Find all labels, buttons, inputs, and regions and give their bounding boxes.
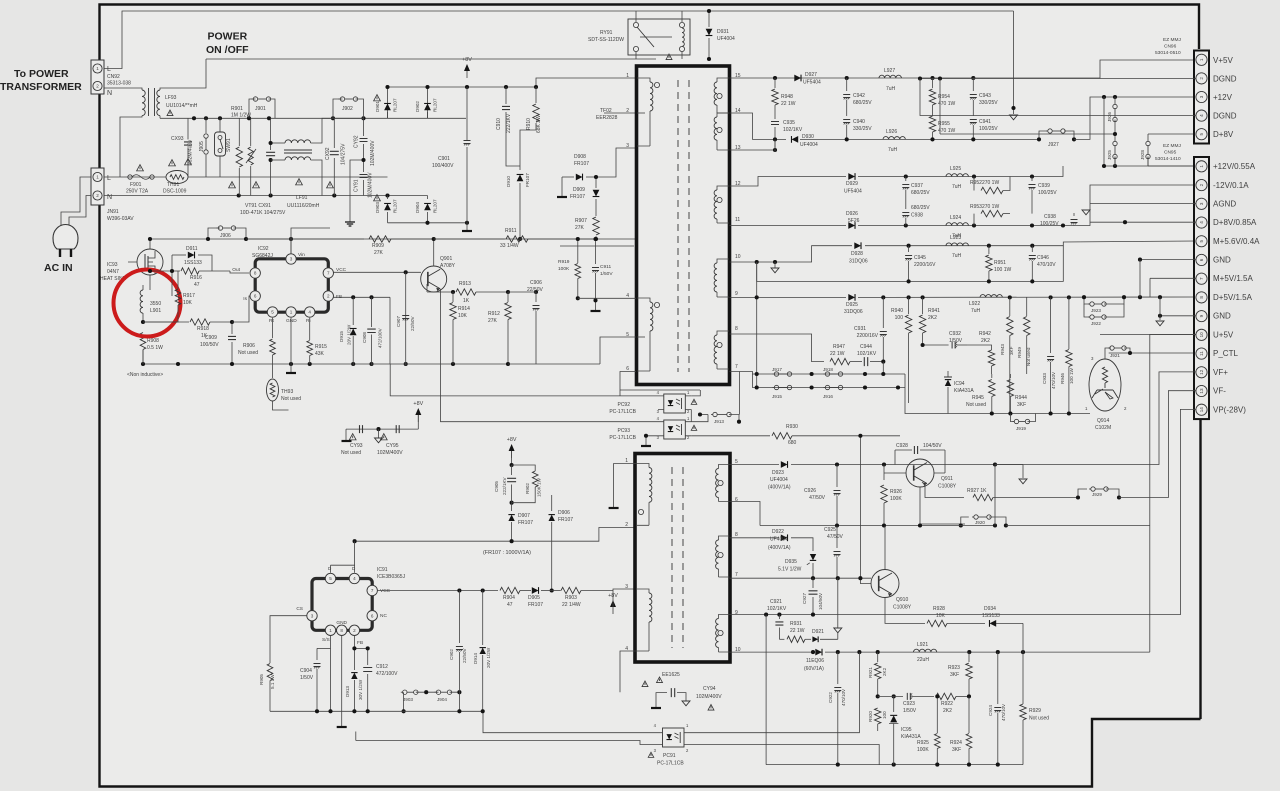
svg-text:ON /OFF: ON /OFF xyxy=(206,44,249,56)
EE1625 aux winding xyxy=(636,589,652,651)
label C901 xyxy=(432,156,454,169)
svg-text:4: 4 xyxy=(308,310,311,315)
junction dot CY xyxy=(361,158,365,162)
svg-text:RY91: RY91 xyxy=(600,30,613,36)
svg-text:1: 1 xyxy=(290,310,293,315)
label CY91 xyxy=(354,172,374,198)
thermistor TH93 xyxy=(267,364,289,410)
wire Q901 collector xyxy=(434,256,440,273)
ground D908 xyxy=(557,177,567,197)
svg-text:100: 100 xyxy=(895,315,904,321)
junction dot feedback xyxy=(858,434,862,438)
svg-text:D927: D927 xyxy=(805,72,817,78)
junction dots row10 rail xyxy=(907,244,1035,248)
wire gnd net mid xyxy=(864,374,866,388)
svg-text:12: 12 xyxy=(1199,369,1204,375)
junction dot pin9 xyxy=(1158,314,1162,318)
wire rail continues xyxy=(508,337,636,364)
label R907 xyxy=(575,218,587,231)
svg-text:R927 1K: R927 1K xyxy=(967,488,987,494)
svg-text:470/10V: 470/10V xyxy=(1051,371,1056,389)
wire jumper row segs xyxy=(404,692,460,711)
svg-text:EZ MMJ: EZ MMJ xyxy=(1163,37,1181,43)
label R926 xyxy=(890,489,902,502)
svg-text:D934: D934 xyxy=(984,606,996,612)
label L924 xyxy=(950,215,962,239)
label R928 xyxy=(933,606,946,619)
resistor R922 xyxy=(936,693,969,699)
label POWER ON/OFF xyxy=(206,31,249,57)
wire Q901 base xyxy=(427,284,453,292)
svg-text:U+5V: U+5V xyxy=(1213,331,1234,340)
wire feedback drop xyxy=(860,436,871,584)
wire VCC rail xyxy=(334,271,422,273)
label C902 xyxy=(449,648,467,663)
svg-text:R913: R913 xyxy=(459,281,471,287)
power arrow +8V pc92 xyxy=(413,401,423,422)
svg-text:680/25V: 680/25V xyxy=(911,205,930,211)
svg-text:3KF: 3KF xyxy=(952,747,961,753)
wire Vin up right xyxy=(290,228,292,239)
svg-text:C945: C945 xyxy=(914,255,926,261)
TF92 primary winding top xyxy=(637,78,660,146)
junction dots R925 xyxy=(935,694,939,698)
svg-text:250V T2A: 250V T2A xyxy=(126,189,149,195)
wire row6 xyxy=(730,502,761,526)
svg-text:102/1KV: 102/1KV xyxy=(767,606,787,612)
svg-text:J906: J906 xyxy=(220,233,231,239)
svg-text:Q911: Q911 xyxy=(941,476,953,482)
label TH93 xyxy=(281,389,301,402)
label TF92 xyxy=(596,108,618,121)
switch SW91 xyxy=(215,118,226,177)
ground arrow CY94 xyxy=(682,701,690,706)
svg-text:C909: C909 xyxy=(205,335,217,341)
capacitor C945 xyxy=(905,246,912,282)
svg-text:C926: C926 xyxy=(804,488,816,494)
wire row12 to L925 xyxy=(858,166,1063,177)
diode D909 xyxy=(593,177,600,212)
junction dots mains bus xyxy=(192,116,366,120)
junction dots row7 ee xyxy=(811,576,863,580)
svg-text:D906: D906 xyxy=(558,510,570,516)
wire row9 xyxy=(730,296,847,298)
resistor R903 xyxy=(552,587,613,593)
wire primary rail 2 xyxy=(560,245,634,247)
svg-text:9: 9 xyxy=(1199,314,1204,317)
svg-text:(60V/1A): (60V/1A) xyxy=(804,666,824,672)
svg-text:J904: J904 xyxy=(437,697,447,702)
svg-text:R903: R903 xyxy=(565,595,577,601)
svg-text:Q910: Q910 xyxy=(896,597,908,603)
resistor R913 xyxy=(456,289,508,295)
svg-text:D914: D914 xyxy=(473,653,478,664)
svg-text:R911: R911 xyxy=(505,228,517,234)
label C931 xyxy=(854,326,879,339)
svg-text:V+5V: V+5V xyxy=(1213,56,1233,65)
svg-text:100K: 100K xyxy=(917,747,929,753)
wire L rail xyxy=(104,176,388,178)
wire FB drop to PC92 xyxy=(389,297,391,364)
wire relay bottom to power rail xyxy=(635,52,637,59)
svg-text:R917: R917 xyxy=(183,293,195,299)
label C923 xyxy=(903,701,917,714)
wire pin9 drop xyxy=(1159,297,1161,316)
resistor R926 xyxy=(881,485,887,526)
svg-text:1/50V: 1/50V xyxy=(300,675,314,681)
wire C906 node xyxy=(508,291,536,293)
diode D905 xyxy=(520,587,552,594)
wire TF92 pin4 xyxy=(578,297,636,299)
svg-text:FR107: FR107 xyxy=(570,194,585,200)
capacitor C944 xyxy=(850,357,883,366)
svg-text:1K: 1K xyxy=(463,298,470,304)
svg-text:IC94: IC94 xyxy=(954,381,965,387)
wire R908 to rail xyxy=(143,350,178,365)
svg-text:100/25V: 100/25V xyxy=(1038,190,1057,196)
svg-text:7uH: 7uH xyxy=(971,308,981,314)
label R908 xyxy=(147,338,163,351)
junction dots J927 xyxy=(1037,137,1076,141)
svg-text:NC: NC xyxy=(380,613,387,619)
svg-text:104/50V: 104/50V xyxy=(818,592,823,610)
svg-text:222/1KV: 222/1KV xyxy=(502,476,507,495)
wire drain net xyxy=(355,528,636,542)
svg-text:Is: Is xyxy=(243,296,247,302)
svg-text:R948: R948 xyxy=(781,94,793,100)
svg-text:L927: L927 xyxy=(884,68,895,74)
wire R908 bottom rail xyxy=(143,363,372,365)
wire DGND pin2 xyxy=(861,60,863,78)
label C932 xyxy=(949,331,963,344)
wire CY junction to ground xyxy=(350,160,364,222)
fuse F901 xyxy=(128,165,154,180)
AC plug xyxy=(53,225,78,258)
wire CN95 pin1 feed xyxy=(1104,122,1196,166)
svg-text:7uH: 7uH xyxy=(952,184,962,190)
wire C901 column xyxy=(466,78,468,87)
label R941 xyxy=(928,308,940,321)
wire row8 xyxy=(730,334,825,362)
TF92 secondary winding 4 xyxy=(714,259,729,297)
svg-text:J920: J920 xyxy=(975,520,985,525)
wire R914 bottom xyxy=(453,330,536,364)
svg-text:D909: D909 xyxy=(573,187,585,193)
junction dot top drop xyxy=(1011,106,1015,110)
wire CN92 N stub xyxy=(104,86,110,88)
svg-text:P_CTL: P_CTL xyxy=(1213,349,1238,358)
inductor L927 xyxy=(879,75,901,78)
diode D908 xyxy=(562,174,596,181)
svg-text:AGND: AGND xyxy=(1213,200,1236,209)
svg-text:D905: D905 xyxy=(528,595,540,601)
wire Q901 base row xyxy=(413,284,453,292)
wire drain to IC91 xyxy=(354,541,356,578)
svg-text:UF4004: UF4004 xyxy=(717,36,735,42)
svg-text:D+8V: D+8V xyxy=(1213,130,1234,139)
svg-text:7: 7 xyxy=(735,364,738,370)
CN96 pin labels xyxy=(1213,56,1237,139)
svg-text:3: 3 xyxy=(625,584,628,590)
svg-text:D911: D911 xyxy=(186,246,198,252)
svg-text:2K2: 2K2 xyxy=(981,338,990,344)
svg-text:100 1W: 100 1W xyxy=(1069,368,1074,384)
label Q901 xyxy=(440,256,456,269)
resistor R924 xyxy=(966,696,972,764)
label C925 xyxy=(824,527,844,540)
junction dots row13 xyxy=(773,137,975,152)
svg-text:150K 1W: 150K 1W xyxy=(537,477,542,497)
svg-text:27K: 27K xyxy=(488,318,498,324)
svg-text:M+5.6V/0.4A: M+5.6V/0.4A xyxy=(1213,237,1260,246)
wire PC91 pin1 right xyxy=(690,652,859,733)
wire Q914 pin3 top xyxy=(1104,353,1106,359)
resistor R931 xyxy=(779,636,805,642)
resistor R951 xyxy=(986,246,992,282)
resistor R953 xyxy=(974,210,1010,225)
svg-text:CY92: CY92 xyxy=(354,135,360,148)
label C907 xyxy=(396,316,415,331)
resistor R930 xyxy=(772,433,900,439)
wire TF92 pin6 xyxy=(620,372,700,391)
svg-text:Q914: Q914 xyxy=(1097,418,1109,424)
wire LF93 left coil top xyxy=(104,88,142,90)
wire Q914 emitter down xyxy=(1097,409,1130,433)
svg-text:L925: L925 xyxy=(950,166,961,172)
junction dots row9 xyxy=(881,295,1162,299)
wire +12V branch down xyxy=(1103,97,1105,122)
label R918 xyxy=(197,326,209,339)
ground arrow C927 xyxy=(834,578,842,633)
junction dots VCC rail xyxy=(404,270,408,274)
svg-text:D922: D922 xyxy=(772,529,784,535)
Q914 pin numbers xyxy=(1085,356,1127,411)
label J922 xyxy=(1091,321,1101,326)
wire C928 ends xyxy=(895,450,945,473)
svg-text:330/25V: 330/25V xyxy=(979,100,998,106)
inductor L901 xyxy=(140,285,143,322)
wire mains bus xyxy=(160,117,466,119)
svg-text:CS: CS xyxy=(296,606,303,612)
diode D925 xyxy=(848,294,855,301)
capacitor CY94 xyxy=(656,677,714,710)
jumper J906 xyxy=(208,226,246,239)
svg-text:J903: J903 xyxy=(403,697,413,702)
wire gnd rail row10 xyxy=(757,246,1064,282)
svg-text:102/1KV: 102/1KV xyxy=(783,127,803,133)
junction dots row9 ee xyxy=(764,613,815,617)
svg-text:A708Y: A708Y xyxy=(440,263,456,269)
wire J928 top to D+8V xyxy=(1148,133,1196,135)
wire to PC92 pin4 xyxy=(390,364,658,396)
svg-text:C1008Y: C1008Y xyxy=(893,605,912,611)
IC IC92 xyxy=(250,254,333,317)
svg-text:22 1W: 22 1W xyxy=(781,101,796,107)
wire LF91 top xyxy=(311,118,364,143)
ground C901 xyxy=(462,223,472,231)
ground arrow top drop xyxy=(1010,115,1018,120)
ground EE pin1 xyxy=(609,507,619,509)
svg-text:J929: J929 xyxy=(1092,492,1102,497)
label R911 xyxy=(500,228,519,249)
wire row5 rail xyxy=(791,464,1023,466)
resistor R927 xyxy=(973,494,1078,500)
TF92 secondary winding 3 xyxy=(714,186,729,223)
wire row15 xyxy=(730,77,974,79)
svg-text:Q901: Q901 xyxy=(440,256,452,262)
label D909 xyxy=(570,187,585,200)
wire pin4 feed xyxy=(1090,221,1196,223)
capacitor C910 xyxy=(502,87,520,166)
svg-text:53014-1410: 53014-1410 xyxy=(1155,156,1181,162)
svg-text:CY91: CY91 xyxy=(354,179,360,192)
svg-text:D928: D928 xyxy=(851,251,863,257)
label R948 xyxy=(781,94,796,107)
wire N to D904 xyxy=(427,196,429,200)
svg-text:222/1KV: 222/1KV xyxy=(506,113,512,133)
svg-text:4: 4 xyxy=(353,576,356,581)
transistor Q911 xyxy=(906,459,934,487)
svg-text:100: 100 xyxy=(882,711,887,719)
diode D929 xyxy=(848,173,855,180)
svg-text:22 1W: 22 1W xyxy=(830,351,845,357)
svg-text:C944: C944 xyxy=(860,344,872,350)
wire EE row6 xyxy=(730,501,838,503)
wire row12 xyxy=(730,177,847,187)
wire out link xyxy=(230,271,249,273)
diode D922 xyxy=(781,534,788,541)
resistor R907 xyxy=(593,212,599,239)
svg-text:27K: 27K xyxy=(575,225,585,231)
svg-text:31DQ06: 31DQ06 xyxy=(844,309,863,315)
capacitor C932 xyxy=(923,342,967,349)
label R919 xyxy=(558,259,570,272)
svg-text:10K: 10K xyxy=(936,613,946,619)
svg-text:FR107: FR107 xyxy=(558,517,573,523)
svg-text:L901: L901 xyxy=(150,308,161,314)
svg-text:31DQ06: 31DQ06 xyxy=(849,259,868,265)
wire Q901 collector up xyxy=(433,239,435,266)
wire row7 right drop xyxy=(905,374,948,414)
resistor R917 xyxy=(175,289,181,305)
svg-text:To POWER: To POWER xyxy=(14,68,69,80)
ground arrow CY xyxy=(375,429,383,443)
svg-text:R929: R929 xyxy=(1029,708,1041,714)
svg-text:PC93: PC93 xyxy=(617,428,630,434)
label J901 xyxy=(255,106,266,112)
wire jumper row xyxy=(404,691,460,693)
svg-text:2: 2 xyxy=(327,294,330,299)
svg-text:D935: D935 xyxy=(785,559,797,565)
label R901 xyxy=(231,106,251,119)
svg-text:UF4004: UF4004 xyxy=(800,142,818,148)
svg-text:SG6842J: SG6842J xyxy=(252,253,273,259)
wire Q911 base xyxy=(884,465,906,474)
wire relay rail xyxy=(656,58,709,60)
svg-text:C908: C908 xyxy=(362,332,367,343)
wire S/S gnd rail lower xyxy=(356,741,657,745)
wire +8V stem xyxy=(417,415,419,429)
label L921 xyxy=(917,642,929,663)
svg-text:D929: D929 xyxy=(846,181,858,187)
label R930 xyxy=(786,424,798,446)
label J902 xyxy=(342,106,353,112)
svg-text:3: 3 xyxy=(626,143,629,149)
label R925 xyxy=(917,740,929,753)
ground arrow pin9 xyxy=(1156,316,1164,326)
wire pin3 from D908 xyxy=(596,148,637,177)
junction dots row15 xyxy=(773,76,975,80)
resistor R952 xyxy=(974,177,1010,194)
resistor R910 xyxy=(520,87,539,166)
svg-text:CX92: CX92 xyxy=(325,147,331,160)
resistor R944 xyxy=(1007,374,1013,414)
IC IC91 xyxy=(307,573,378,635)
wire pin4 drop xyxy=(1124,222,1126,297)
label Q911 xyxy=(938,476,957,490)
svg-text:FR107: FR107 xyxy=(574,161,589,167)
wire bridge plus rail xyxy=(388,78,638,87)
wire pin6 drop xyxy=(1139,260,1141,298)
IC91 pin names xyxy=(296,566,390,646)
svg-text:L921: L921 xyxy=(917,642,928,648)
junction dots row5 xyxy=(835,462,997,466)
capacitor C901 xyxy=(464,87,471,223)
resistor R948 xyxy=(772,78,778,119)
EE1625 secondary winding 3 xyxy=(716,615,730,653)
junction dots row10 xyxy=(755,260,777,264)
svg-text:R926: R926 xyxy=(890,489,902,495)
svg-text:C102M: C102M xyxy=(1095,425,1111,431)
label CY92 xyxy=(354,135,377,166)
junction dots J906 xyxy=(206,237,248,241)
svg-text:2: 2 xyxy=(625,522,628,528)
svg-text:20V 1/2W: 20V 1/2W xyxy=(347,324,352,345)
wire P_CTL xyxy=(1109,352,1196,354)
wire Vin xyxy=(290,239,292,254)
wire power on-off rail xyxy=(206,58,656,60)
junction dots N rail xyxy=(237,193,390,197)
capacitor C907 xyxy=(402,316,409,319)
junction dots J913 xyxy=(698,412,741,423)
wire row7 xyxy=(730,372,906,375)
resistor R949 xyxy=(1023,297,1029,374)
wire row8 jumper bypass xyxy=(1084,297,1127,302)
wire secondary gnd vertical xyxy=(756,262,758,388)
capacitor CY95 xyxy=(380,425,399,440)
label F901 xyxy=(126,182,149,195)
junction dot PC93 pin3 xyxy=(644,434,648,438)
label D913 xyxy=(345,679,363,700)
svg-text:2: 2 xyxy=(353,628,356,633)
wire C931 bottom to gnd rail xyxy=(882,362,884,374)
wire bottom rail right xyxy=(766,764,1023,766)
wire EE pin1 xyxy=(614,464,636,508)
wire Is link xyxy=(232,296,255,322)
label JN91 xyxy=(107,175,134,222)
svg-text:7: 7 xyxy=(1199,277,1204,280)
label C939 xyxy=(1038,183,1057,196)
label Q910 xyxy=(893,597,912,611)
label R915 xyxy=(315,344,327,357)
svg-text:100/50V: 100/50V xyxy=(200,342,219,348)
svg-text:102M/400V: 102M/400V xyxy=(370,140,376,166)
svg-text:11: 11 xyxy=(1199,351,1204,356)
wire Q910 emitter seg xyxy=(885,598,925,624)
label J921 xyxy=(1110,353,1120,358)
label D930 xyxy=(800,134,818,148)
svg-text:TH93: TH93 xyxy=(281,389,293,395)
